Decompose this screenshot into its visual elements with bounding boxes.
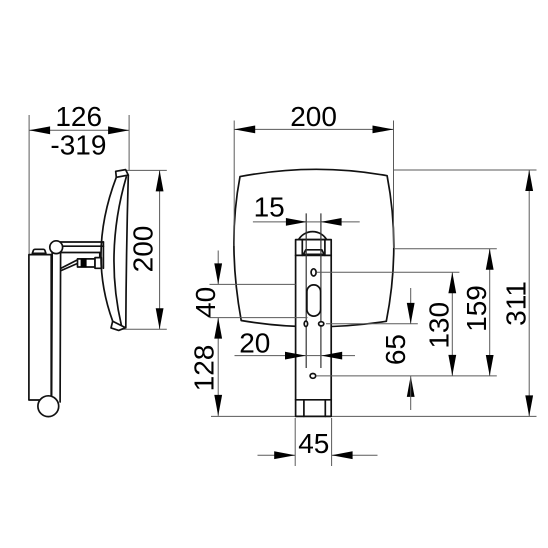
dim 15 arrow left xyxy=(286,218,307,226)
svg-text:-319: -319 xyxy=(50,129,106,160)
leader y=271.4 to 130 xyxy=(317,271,460,273)
dim 311 dimension line xyxy=(528,170,530,416)
squircle mirror body xyxy=(234,169,394,326)
dim 45 left extension line xyxy=(294,418,296,466)
dim 126/-319 dimension line xyxy=(29,129,129,131)
horizontal arm bottom edge xyxy=(59,252,100,254)
dim 20 arrow left xyxy=(285,352,306,360)
cable clamp inner line xyxy=(94,259,96,267)
mirror bracket vertical near xyxy=(99,253,101,268)
ext line y=416.4 bottom long xyxy=(211,415,537,417)
dim 200 front arrow right xyxy=(373,126,394,134)
dim 20 dimension line left xyxy=(235,355,307,357)
dim 128 arrow up xyxy=(214,318,222,339)
dim 20 arrow right xyxy=(321,352,342,360)
dim 200 front arrow left xyxy=(234,126,255,134)
svg-text:65: 65 xyxy=(380,334,411,365)
mirror back face curve xyxy=(126,175,129,328)
dim 128 arrow down xyxy=(214,395,222,416)
dim 15 dimension line middle xyxy=(307,221,321,223)
wall plate xyxy=(29,255,51,400)
cable wire 2 xyxy=(61,263,78,270)
mirror bracket vertical far xyxy=(102,242,104,268)
top hole xyxy=(311,269,316,276)
dim 126/-319 extension line left (wall line) xyxy=(28,115,30,255)
horizontal arm middle line xyxy=(60,245,103,247)
hanging arm (vertical) right edge xyxy=(59,252,62,402)
cable clamp rod xyxy=(78,259,102,267)
svg-text:15: 15 xyxy=(254,192,285,223)
ext line y=317.6 slot bottom xyxy=(210,317,308,319)
dim 20 dimension line middle xyxy=(306,355,321,357)
dim 130 arrow down xyxy=(448,355,456,376)
wall plate top tab xyxy=(32,249,46,253)
ext line y=248.8 to 159 xyxy=(394,248,497,250)
post clamp trapezoid xyxy=(303,250,324,255)
ext line y=170 to 311 xyxy=(394,169,537,171)
dim 130 dimension line xyxy=(451,272,453,376)
svg-text:130: 130 xyxy=(424,302,455,349)
dim 200 (left view) top extension line xyxy=(126,169,167,171)
post clamp right inner vertical xyxy=(324,240,326,256)
svg-text:128: 128 xyxy=(189,345,220,392)
dim 65 arrow up xyxy=(407,376,415,397)
dim 200 (front) right extension line xyxy=(393,121,395,249)
dim 15 arrow right xyxy=(321,218,342,226)
post bottom cap top line xyxy=(296,399,332,401)
dim 45 right extension line xyxy=(331,418,333,466)
mirror front face curve xyxy=(101,177,116,321)
dim 130 arrow up xyxy=(448,272,456,293)
cable wire 1 xyxy=(61,260,78,268)
dim 159 arrow down xyxy=(486,355,494,376)
ext line y=284.4 slot top xyxy=(210,283,296,285)
hanging arm (vertical) left edge xyxy=(51,250,54,400)
dim 128 dimension line xyxy=(217,318,219,416)
dim 126 arrow left xyxy=(29,126,50,134)
dim 200 arrow down xyxy=(156,308,164,329)
dim 126 arrow right xyxy=(108,126,129,134)
mounting post body xyxy=(296,240,332,417)
post dome cap xyxy=(299,232,327,240)
dim 45 arrow right xyxy=(332,451,353,459)
svg-text:126: 126 xyxy=(55,101,102,132)
dim 40 arrow down xyxy=(214,263,222,284)
dim 200 (left view) dimension line xyxy=(159,170,161,329)
dim 45 dimension line right xyxy=(332,454,378,456)
svg-text:159: 159 xyxy=(461,285,492,332)
arm slot capsule xyxy=(307,285,321,316)
svg-text:20: 20 xyxy=(239,327,270,358)
dim 45 dimension line left xyxy=(258,454,296,456)
dim 65 tail bottom xyxy=(410,376,412,410)
left small hole xyxy=(304,321,307,326)
pivot joint circle xyxy=(50,241,63,254)
svg-text:200: 200 xyxy=(290,101,337,132)
post clamp left inner vertical xyxy=(301,240,303,256)
post clamp bottom line xyxy=(296,254,332,256)
post bottom cap left vertical xyxy=(303,400,305,417)
dim 65 tail top xyxy=(410,288,412,324)
dim 40 tail top xyxy=(217,251,219,285)
dim 15 dimension line left xyxy=(253,221,307,223)
right small hole xyxy=(319,322,324,326)
dim 200 (front) left extension line xyxy=(233,121,235,247)
dim 311 arrow down xyxy=(525,395,533,416)
dim 200 (front) dimension line xyxy=(234,128,393,130)
dim 15 dimension line right xyxy=(321,221,360,223)
arm hidden line right / ext for 15 and 20 xyxy=(320,213,322,368)
dim 65 arrow down xyxy=(407,303,415,324)
dim 20 dimension line right xyxy=(321,355,355,357)
ball end at arm bottom xyxy=(38,396,59,417)
svg-text:40: 40 xyxy=(190,287,221,318)
arm hidden line left / ext for 15 and 20 xyxy=(305,213,307,368)
leader y=323.8 to 65 xyxy=(326,323,418,325)
svg-text:45: 45 xyxy=(298,428,329,459)
lower hole xyxy=(310,374,316,379)
svg-text:311: 311 xyxy=(501,281,532,326)
svg-text:200: 200 xyxy=(128,226,159,273)
dim 159 dimension line xyxy=(489,249,491,376)
dim 311 arrow up xyxy=(525,170,533,191)
dim 159 arrow up xyxy=(486,249,494,270)
horizontal arm top edge xyxy=(58,241,103,243)
cable clamp collar xyxy=(95,258,101,269)
cable clamp black band xyxy=(81,259,87,268)
mirror bottom bevel xyxy=(111,321,126,330)
dim 45 arrow left xyxy=(274,451,295,459)
dim 200 (left view) bottom extension line xyxy=(121,328,167,330)
dim 200 arrow up xyxy=(156,170,164,191)
leader y=375.9 to 159 xyxy=(316,375,497,377)
dim 126/-319 extension line right xyxy=(128,115,130,170)
mirror middle seam curve xyxy=(114,177,126,326)
mirror top bevel xyxy=(116,170,129,178)
post bottom cap right vertical xyxy=(324,400,326,417)
